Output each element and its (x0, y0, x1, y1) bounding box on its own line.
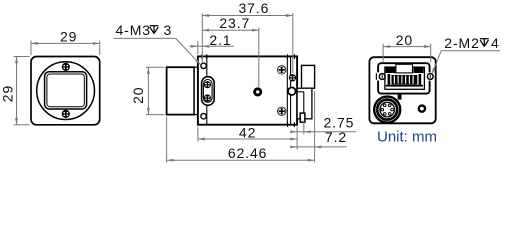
side view lens flange (194, 67, 198, 114)
dimension 20 rear text (396, 32, 413, 48)
side view front plate line (206, 57, 208, 124)
dimension 23.7 text (219, 15, 250, 31)
side view rear bottom pad (300, 113, 305, 122)
rear view RJ45 latch tab (398, 94, 402, 100)
unit note text (377, 129, 437, 146)
svg-text:29: 29 (0, 85, 15, 102)
svg-text:4-M3: 4-M3 (116, 22, 152, 38)
dimension 23.7 line (202, 29, 258, 32)
svg-text:3: 3 (164, 22, 173, 38)
svg-text:20: 20 (130, 87, 146, 104)
side view hex screw (289, 74, 296, 81)
svg-text:Unit: mm: Unit: mm (377, 129, 437, 146)
dimension 29 top extension lines (31, 41, 100, 56)
side view socket screw bottom (277, 107, 286, 116)
rear view RJ45 shield (378, 63, 430, 93)
front view bottom screw (62, 110, 70, 118)
label 4-M3 depth 3 text (116, 22, 173, 38)
rear view power connector mid ring (377, 100, 397, 120)
rear view RJ45 plug tab notch (396, 64, 413, 73)
side view rear lower housing (297, 88, 312, 119)
svg-text:62.46: 62.46 (228, 145, 268, 161)
side view clamp stadium inner (203, 80, 212, 103)
dimension 37.6 text (238, 0, 269, 16)
rear view RJ45 screw left (379, 74, 385, 80)
rear view power connector pins (381, 104, 393, 115)
dimension 20 lens text (130, 87, 146, 104)
side view M3 screw hole bottom front (201, 114, 206, 119)
dimension 29 left line (15, 57, 18, 125)
label 2-M2 leader (432, 51, 500, 75)
dimension 2.1 line (189, 45, 234, 48)
front view body outline (31, 57, 100, 125)
side view rear connector bump (302, 65, 315, 88)
rear view body outline (369, 57, 435, 123)
side view top face hole ticks front (202, 54, 207, 59)
dimension 2.75 text (323, 115, 354, 131)
side view clamp screw top (204, 81, 211, 88)
side view back plate lines (287, 57, 290, 124)
label 4-M3 leader (114, 38, 201, 65)
side view main body (198, 56, 297, 124)
svg-text:37.6: 37.6 (238, 0, 269, 16)
side view bottom face hole ticks rear (288, 122, 295, 127)
dimension 20 lens line (147, 67, 150, 114)
rear view RJ45 screw right (427, 74, 433, 80)
dimension 62.46 extension lines (167, 91, 315, 163)
rear view M2 screw hole bottom right (419, 106, 425, 112)
side view clamp screw bottom (204, 94, 211, 101)
front view top screw (62, 63, 70, 71)
dimension 2.1 extension line (197, 41, 199, 54)
rear view RJ45 jack outline (385, 67, 425, 89)
dimension 20 rear line (383, 45, 431, 48)
dimension 7.2 text (325, 129, 347, 145)
svg-text:23.7: 23.7 (219, 15, 250, 31)
svg-text:29: 29 (60, 28, 77, 44)
dimension 29 left extension lines (14, 57, 30, 125)
dimension 42 extension lines (198, 127, 297, 150)
svg-text:4: 4 (491, 35, 500, 51)
side view open hole (288, 87, 296, 95)
dimension 37.6 line (202, 14, 292, 17)
dimension 2.75 line (290, 130, 356, 133)
rear view power connector inner ring (380, 102, 395, 117)
dimension 29 left text (0, 85, 15, 102)
label 2-M2 depth 4 text (444, 35, 499, 51)
rear view RJ45 latch slots (388, 74, 422, 85)
dimension 2.1 text (209, 32, 231, 48)
dimension 42 text (239, 125, 256, 141)
svg-text:20: 20 (396, 32, 413, 48)
rear view power connector outer ring (374, 97, 400, 123)
svg-text:2.1: 2.1 (209, 32, 231, 48)
dimension 29 top line (31, 42, 100, 45)
side view rear housing internal lines (297, 92, 304, 119)
front view sensor window inner (47, 74, 84, 107)
side view top face hole ticks rear (288, 54, 295, 59)
front view lens mount circle (37, 62, 95, 120)
svg-text:7.2: 7.2 (325, 129, 347, 145)
dimension 20 lens extension lines (146, 67, 165, 114)
rear view RJ45 side notches (376, 72, 432, 80)
dimension 29 top text (60, 28, 77, 44)
dimension 62.46 line (167, 159, 315, 162)
side view M3 screw hole top front (201, 63, 206, 68)
dimension 7.2 line (290, 145, 347, 148)
dimension 37.6 extension lines (202, 13, 292, 73)
side view lens barrel (167, 67, 195, 114)
dimension 20 rear extension lines (383, 44, 431, 63)
dimension 23.7 extension line (258, 28, 260, 88)
dimension 42 line (198, 138, 297, 141)
front view sensor window outer (45, 72, 87, 109)
dimension 2.75 extension line (303, 121, 305, 135)
rear view RJ45 top blocks (386, 67, 424, 73)
side view clamp stadium outer (202, 77, 215, 106)
side view socket screw top (277, 65, 286, 74)
svg-text:42: 42 (239, 125, 256, 141)
svg-text:2.75: 2.75 (323, 115, 354, 131)
dimension 62.46 text (228, 145, 268, 161)
svg-text:2-M2: 2-M2 (444, 35, 480, 51)
side view center ring hole (254, 89, 261, 96)
rear view RJ45 pin comb (386, 75, 423, 87)
